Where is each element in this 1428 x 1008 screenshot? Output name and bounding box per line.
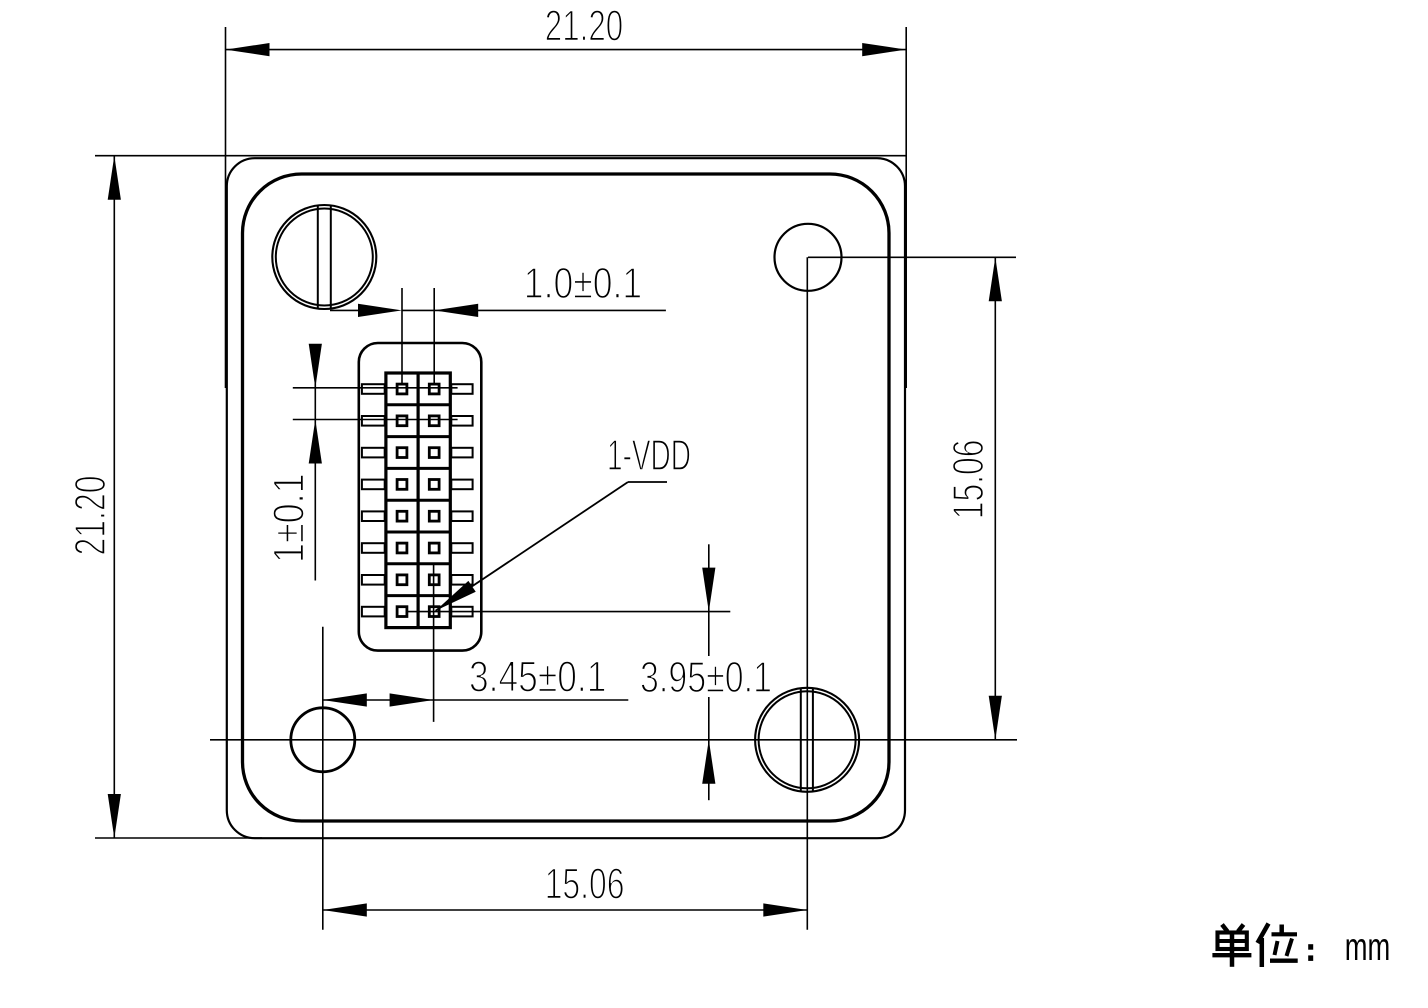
dim 1±0.1: lower outside arrow bbox=[309, 420, 322, 464]
dim 1.0±0.1: dimension line bbox=[402, 309, 666, 311]
screw hole top-left outer circle bbox=[272, 205, 376, 309]
outer body outline bbox=[227, 158, 905, 838]
hole bottom-left circle bbox=[291, 708, 355, 772]
dim 21.20 left: bottom extension line bbox=[95, 837, 262, 839]
svg-text:15.06: 15.06 bbox=[545, 859, 625, 908]
screw hole top-left inner circle bbox=[276, 209, 373, 306]
dim 21.20 left: top extension line bbox=[95, 155, 906, 157]
dim 15.06 right: bottom arrow bbox=[989, 696, 1002, 740]
dim 1±0.1: upper outside arrow bbox=[309, 344, 322, 388]
dim 15.06 right: top extension line bbox=[808, 256, 1016, 258]
dim 3.95±0.1: pin row extension line bbox=[406, 611, 730, 613]
dim 3.95±0.1: dimension line lower bbox=[708, 697, 710, 800]
dim 15.06 bottom: left arrow bbox=[323, 903, 367, 916]
connector right tabs bbox=[451, 384, 472, 616]
dim 1.0±0.1: left outside arrow bbox=[358, 304, 402, 317]
dim 3.45±0.1: right arrow bbox=[390, 693, 434, 706]
screw slot bottom-right right line bbox=[812, 689, 814, 791]
dim 3.45±0.1: pin extension line bbox=[433, 564, 435, 722]
connector pads column 1 bbox=[397, 384, 407, 616]
screw slot bottom-right left line bbox=[800, 689, 802, 791]
dim 1±0.1: row2 extension line bbox=[293, 419, 458, 421]
centerline vertical through bottom-left hole bbox=[322, 627, 324, 930]
svg-text:1±0.1: 1±0.1 bbox=[265, 473, 314, 563]
svg-text:21.20: 21.20 bbox=[545, 2, 623, 51]
leader 1-VDD: underline bbox=[628, 481, 667, 483]
svg-text:mm: mm bbox=[1345, 926, 1391, 969]
units label: 位 character strokes bbox=[1258, 924, 1298, 968]
dim 21.20 top: right arrow bbox=[862, 43, 906, 56]
dim 3.95±0.1: lower outside arrow bbox=[702, 740, 715, 784]
screw hole bottom-right outer circle bbox=[755, 688, 859, 792]
connector grid frame bbox=[386, 373, 450, 628]
svg-text:3.45±0.1: 3.45±0.1 bbox=[469, 653, 606, 702]
dim 3.95±0.1: dimension line upper bbox=[708, 544, 710, 656]
connector pads column 2 bbox=[429, 384, 439, 616]
dim 21.20 left: bottom arrow bbox=[108, 794, 121, 838]
dim 3.45±0.1: dimension line bbox=[323, 699, 629, 701]
dim 15.06 bottom: dimension line bbox=[323, 909, 808, 911]
screw hole bottom-right inner circle bbox=[759, 691, 856, 788]
screw slot top-left right line bbox=[330, 206, 332, 308]
dim 21.20 top: left arrow bbox=[226, 43, 270, 56]
connector grid row dividers bbox=[386, 405, 450, 596]
dim 3.95±0.1: upper outside arrow bbox=[702, 568, 715, 612]
dim 1±0.1: dimension line bbox=[314, 344, 316, 581]
svg-text:3.95±0.1: 3.95±0.1 bbox=[640, 653, 772, 702]
dim 1.0±0.1: left stub line bbox=[330, 309, 359, 311]
dim 21.20 top: right extension line bbox=[905, 27, 907, 388]
units label: 单 character strokes bbox=[1212, 925, 1251, 967]
dim 1±0.1: row1 extension line bbox=[293, 387, 458, 389]
connector grid center vertical bbox=[417, 373, 420, 628]
connector body outline bbox=[359, 343, 482, 651]
centerline through bottom holes bbox=[210, 739, 1017, 741]
screw slot top-left left line bbox=[317, 206, 319, 308]
leader 1-VDD: arrow bbox=[432, 581, 476, 616]
connector left tabs bbox=[362, 384, 385, 616]
inner body outline bbox=[243, 174, 890, 821]
dim 21.20 left: dimension line bbox=[113, 156, 115, 838]
dim 15.06 right: top arrow bbox=[989, 257, 1002, 301]
centerline vertical through right holes bbox=[806, 257, 808, 930]
leader 1-VDD: diagonal line bbox=[436, 482, 629, 611]
dim 1.0±0.1: left pin extension line bbox=[401, 288, 403, 383]
dim 1.0±0.1: right pin extension line bbox=[433, 288, 435, 383]
dim 21.20 top: left extension line bbox=[225, 27, 227, 388]
svg-text:15.06: 15.06 bbox=[944, 440, 993, 520]
dim 15.06 bottom: right arrow bbox=[763, 903, 807, 916]
svg-text:1-VDD: 1-VDD bbox=[607, 431, 691, 480]
dim 15.06 right: dimension line bbox=[994, 257, 996, 740]
dim 3.45±0.1: left arrow bbox=[323, 693, 367, 706]
svg-text:21.20: 21.20 bbox=[66, 476, 115, 556]
dim 21.20 left: top arrow bbox=[108, 156, 121, 200]
hole top-right circle bbox=[775, 224, 842, 291]
units label: fullwidth colon bbox=[1308, 944, 1313, 950]
dim 21.20 top: dimension line bbox=[226, 49, 907, 51]
dim 1.0±0.1: right outside arrow bbox=[434, 304, 478, 317]
svg-text:1.0±0.1: 1.0±0.1 bbox=[524, 259, 642, 308]
